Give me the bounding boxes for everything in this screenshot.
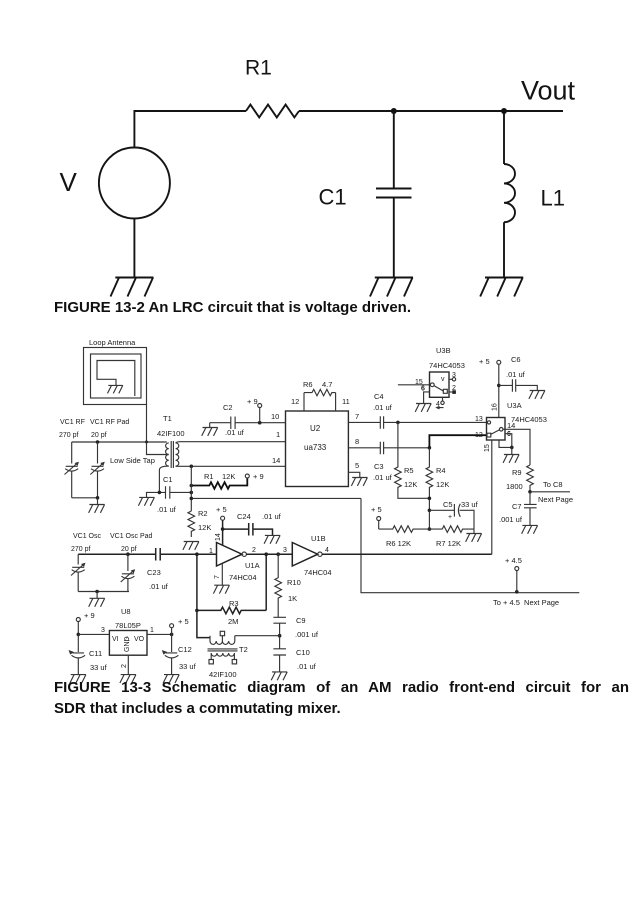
gate ground stub U1A <box>221 564 223 586</box>
svg-text:20 pf: 20 pf <box>91 432 107 439</box>
svg-text:v: v <box>441 376 445 383</box>
svg-text:270 pf: 270 pf <box>59 432 79 439</box>
svg-text:7: 7 <box>214 575 221 579</box>
wire osc bottom <box>78 591 129 593</box>
resistor R7 12K row <box>429 526 474 533</box>
svg-text:R5: R5 <box>404 466 414 475</box>
svg-text:C3: C3 <box>374 462 384 471</box>
svg-text:△: △ <box>125 636 130 642</box>
wire L1 to ground <box>503 222 505 277</box>
node R4 bottom <box>428 497 432 501</box>
wire +5 C24 <box>222 520 224 529</box>
wire T1 secondary top to U2 pin 1 <box>176 442 286 443</box>
svg-text:VC1 RF Pad: VC1 RF Pad <box>90 419 129 426</box>
IC U8 box <box>109 631 147 656</box>
svg-text:+ 9: + 9 <box>84 611 95 620</box>
pin 2 stub U8 <box>127 655 129 674</box>
svg-text:+ 5: + 5 <box>371 505 382 514</box>
transformer T1 core <box>171 441 173 468</box>
ground RF tank <box>89 498 105 513</box>
svg-text:C24: C24 <box>237 512 251 521</box>
transformer T1 secondary winding <box>176 443 179 466</box>
svg-text:10: 10 <box>271 412 279 421</box>
svg-text:C4: C4 <box>374 392 384 401</box>
node C24 <box>221 527 225 531</box>
capacitor C1 <box>166 486 170 499</box>
resistor R6 12K row <box>379 526 430 533</box>
capacitor C6 row <box>499 379 538 392</box>
svg-text:C2: C2 <box>223 403 233 412</box>
wire pin 3 U8 <box>78 633 109 635</box>
wire mixer feed down <box>361 498 579 592</box>
node y498 <box>190 497 194 501</box>
svg-text:C1: C1 <box>163 475 173 484</box>
svg-text:R3: R3 <box>229 599 239 608</box>
ground U3B <box>415 404 431 412</box>
pin 2 stub U3B <box>449 391 452 393</box>
inductor L1 <box>504 164 515 222</box>
IC U3B box <box>430 372 450 397</box>
svg-text:R1: R1 <box>204 472 214 481</box>
node C4 R5 <box>396 421 400 425</box>
oscillator wire with C23 <box>78 548 216 561</box>
svg-text:VO: VO <box>134 636 145 643</box>
svg-text:.01 uf: .01 uf <box>149 582 169 591</box>
svg-text:12: 12 <box>475 432 483 439</box>
svg-text:12K: 12K <box>404 480 417 489</box>
svg-text:12: 12 <box>291 397 299 406</box>
resistor R2 <box>188 511 195 537</box>
wire T2 to C9 C10 node <box>235 635 280 637</box>
node R9 C7 <box>528 490 532 494</box>
svg-text:U3B: U3B <box>436 346 451 355</box>
svg-text:C23: C23 <box>147 568 161 577</box>
wire pin 15 U3B <box>398 384 430 386</box>
capacitor C11 electrolytic <box>72 653 86 674</box>
ground R7 <box>466 529 482 542</box>
node C3 R4 <box>428 446 432 450</box>
pin 3 stub U3B <box>449 378 452 380</box>
variable capacitor VC1 RF Pad <box>90 442 104 498</box>
svg-text:+ 4.5: + 4.5 <box>505 556 522 565</box>
svg-text:.01 uf: .01 uf <box>157 505 177 514</box>
caption figure 13-2 <box>54 297 411 318</box>
svg-text:R6 12K: R6 12K <box>386 539 411 548</box>
svg-text:33 uf: 33 uf <box>90 663 108 672</box>
caption figure 13-3 <box>54 677 629 719</box>
svg-text:6: 6 <box>507 431 511 438</box>
svg-text:T2: T2 <box>239 645 248 654</box>
node osc ground <box>95 590 99 594</box>
svg-text:To C8: To C8 <box>543 480 563 489</box>
terminal +9 C2 <box>259 408 261 423</box>
wire pin8 + capacitor C3 <box>348 442 429 455</box>
svg-text:V: V <box>60 167 78 197</box>
svg-text:+ 9: + 9 <box>253 472 264 481</box>
svg-text:3: 3 <box>101 627 105 634</box>
ground R2 <box>183 542 199 550</box>
node VC1 Osc Pad <box>126 552 130 556</box>
svg-text:R9: R9 <box>512 468 522 477</box>
node VC1 RF Pad <box>96 440 100 444</box>
wire pin 14 to R9 <box>503 429 530 465</box>
loop antenna innermost turn <box>97 361 135 397</box>
inverter U1A <box>217 543 243 567</box>
ground U1A <box>213 585 229 593</box>
svg-text:.001 uf: .001 uf <box>499 515 523 524</box>
svg-text:+ 9: + 9 <box>247 397 258 406</box>
node R3 feedback <box>264 552 268 556</box>
wire vertical R2 node <box>190 466 192 511</box>
svg-text:1: 1 <box>209 548 213 555</box>
ground pin5 <box>351 478 367 486</box>
svg-text:15: 15 <box>484 444 491 452</box>
node +9 C2 <box>258 421 262 425</box>
svg-text:14: 14 <box>272 456 280 465</box>
ground inside antenna <box>108 385 123 393</box>
svg-text:.01 uf: .01 uf <box>262 512 282 521</box>
node C9 C10 T2 <box>278 634 282 638</box>
capacitor C2 row <box>210 417 286 430</box>
svg-text:U1B: U1B <box>311 534 326 543</box>
svg-text:2: 2 <box>452 385 456 392</box>
switch lever U3A <box>491 430 500 435</box>
wire pin 1 U8 <box>147 633 172 635</box>
svg-text:R2: R2 <box>198 509 208 518</box>
node R3 left <box>195 609 199 613</box>
node C1 right <box>190 491 194 495</box>
node R1 left <box>190 484 194 488</box>
svg-text:.01 uf: .01 uf <box>225 428 245 437</box>
svg-text:12K: 12K <box>222 472 235 481</box>
variable capacitor VC1 Osc Pad <box>121 554 135 591</box>
svg-text:2: 2 <box>121 664 128 668</box>
wire +9 down <box>77 622 79 653</box>
svg-text:R7 12K: R7 12K <box>436 539 461 548</box>
wire C1 node to mixer column <box>191 497 361 499</box>
svg-text:U1A: U1A <box>245 561 260 570</box>
svg-text:42IF100: 42IF100 <box>157 429 185 438</box>
wire C3 node to U3A pin 12 <box>429 435 486 448</box>
resistor R6 4.7 with stubs <box>304 389 336 411</box>
svg-text:T1: T1 <box>163 414 172 423</box>
svg-text:16: 16 <box>492 403 499 411</box>
svg-text:R6: R6 <box>303 380 313 389</box>
wire R1 to Vout end <box>299 110 563 112</box>
svg-text:1K: 1K <box>288 594 297 603</box>
node T1 bottom <box>190 465 194 469</box>
svg-text:.01 uf: .01 uf <box>506 370 526 379</box>
wire pin7 + capacitor C4 <box>348 416 486 429</box>
svg-text:74HC04: 74HC04 <box>229 573 257 582</box>
svg-text:VC1 Osc: VC1 Osc <box>73 533 102 540</box>
wire T1 primary bottom to C1 <box>159 466 168 492</box>
svg-text:12K: 12K <box>436 480 449 489</box>
node C11 <box>77 633 81 637</box>
svg-text:VC1 RF: VC1 RF <box>60 419 85 426</box>
svg-text:33 uf: 33 uf <box>461 500 479 509</box>
wire RF node <box>72 441 167 443</box>
svg-text:ua733: ua733 <box>304 443 327 452</box>
ground osc <box>89 592 105 607</box>
svg-text:C10: C10 <box>296 648 310 657</box>
wire T1 secondary bottom to U2 pin 14 <box>176 465 286 467</box>
svg-text:C1: C1 <box>319 185 347 210</box>
wire U1B out to mixer <box>322 553 492 555</box>
T2 secondary terminals <box>209 660 213 664</box>
svg-text:R10: R10 <box>287 578 301 587</box>
wire node to C1 <box>393 111 395 188</box>
svg-text:VC1 Osc Pad: VC1 Osc Pad <box>110 533 153 540</box>
svg-text:+ 5: + 5 <box>178 617 189 626</box>
svg-text:2M: 2M <box>228 617 238 626</box>
resistor R10 <box>275 554 282 617</box>
svg-text:4.7: 4.7 <box>322 380 332 389</box>
feedback vertical left <box>196 554 198 610</box>
svg-text:C11: C11 <box>89 649 102 658</box>
transformer T1 primary winding <box>166 443 169 466</box>
wire pin5 to ground <box>348 472 359 477</box>
svg-text:R1: R1 <box>245 57 272 80</box>
svg-text:.01 uf: .01 uf <box>373 403 393 412</box>
svg-text:270 pf: 270 pf <box>71 546 91 553</box>
ground under L1 <box>480 278 523 297</box>
wire antenna to tap <box>147 442 169 455</box>
wire pin6 to ground U3B <box>424 392 430 403</box>
wire pin6 U3A to ground <box>505 434 512 448</box>
pin 4 stub below U3B <box>442 397 444 401</box>
switch pole U3B <box>430 383 434 387</box>
svg-text:.01 uf: .01 uf <box>373 473 393 482</box>
control line U3A to U1B output <box>491 440 493 554</box>
svg-text:11: 11 <box>342 397 350 406</box>
ground C6 <box>529 391 545 399</box>
node RF ground <box>96 496 100 500</box>
variable capacitor VC1 Osc <box>71 554 85 591</box>
pin 13 pole <box>487 421 490 424</box>
capacitor C7 <box>524 492 537 525</box>
terminal +9 U8 <box>76 618 80 622</box>
svg-text:13: 13 <box>475 416 483 423</box>
ground U3A <box>503 447 519 463</box>
svg-text:+: + <box>448 514 452 521</box>
node antenna <box>145 441 148 444</box>
svg-text:4: 4 <box>325 547 329 554</box>
svg-text:C9: C9 <box>296 616 306 625</box>
svg-text:74HC04: 74HC04 <box>304 568 332 577</box>
wire +5 down to U3A <box>498 364 500 417</box>
bottom pin U3A <box>499 440 512 447</box>
svg-text:VI: VI <box>112 636 119 643</box>
svg-text:+ 5: + 5 <box>479 357 490 366</box>
wire RF bottom <box>72 497 98 499</box>
ground C11 <box>70 675 86 683</box>
loop antenna inner turn <box>91 354 142 398</box>
capacitor C9 <box>273 617 286 635</box>
wire osc node down to T2 <box>197 610 210 637</box>
capacitor C24 row <box>223 523 273 536</box>
resistor R1 12K row <box>191 478 247 489</box>
node R10 top <box>276 552 280 556</box>
terminal +9 R1 <box>245 474 249 478</box>
svg-text:2: 2 <box>252 547 256 554</box>
IC U2 box <box>286 411 349 487</box>
feedback vertical right <box>265 554 267 610</box>
ground C10 <box>271 672 287 680</box>
resistor R9 <box>527 465 534 492</box>
svg-text:.001 uf: .001 uf <box>295 630 319 639</box>
ground C12 <box>163 675 179 683</box>
resistor R5 <box>395 422 430 498</box>
wire C1 to ground <box>393 198 395 278</box>
node junction L1 <box>501 108 507 114</box>
node C1 left <box>158 491 162 495</box>
node U1A input <box>195 552 199 556</box>
resistor R3 row <box>197 607 266 614</box>
node C12 <box>170 633 174 637</box>
svg-text:14: 14 <box>507 421 515 430</box>
svg-text:C12: C12 <box>178 645 192 654</box>
ground under V <box>111 278 154 297</box>
svg-text:U8: U8 <box>121 607 131 616</box>
capacitor C10 <box>273 636 286 672</box>
terminal +5 U8 <box>170 624 174 628</box>
inverter U1B <box>292 543 317 567</box>
svg-text:1800: 1800 <box>506 482 523 491</box>
wire node to L1 <box>503 111 505 164</box>
terminal +5 R6 <box>377 517 381 521</box>
ground U8 <box>120 675 136 683</box>
svg-text:20 pf: 20 pf <box>121 546 137 553</box>
resistor R1 <box>246 105 299 118</box>
svg-text:74HC4053: 74HC4053 <box>429 361 465 370</box>
svg-text:5: 5 <box>355 461 359 470</box>
+5 terminal C24 <box>221 516 225 520</box>
svg-text:12K: 12K <box>198 523 211 532</box>
node R6 R7 <box>428 527 432 531</box>
svg-text:To + 4.5 Next Page: To + 4.5 Next Page <box>493 598 559 607</box>
svg-text:1: 1 <box>150 627 154 634</box>
ground C24 <box>264 535 280 543</box>
wire V bottom to ground <box>133 219 135 278</box>
svg-text:L1: L1 <box>541 186 565 211</box>
transformer T2 core <box>208 649 238 651</box>
svg-text:8: 8 <box>355 437 359 446</box>
T2 center tap <box>221 636 223 642</box>
svg-text:C7: C7 <box>512 502 522 511</box>
wire +5 to R6 <box>378 521 380 530</box>
node C6 <box>497 384 501 388</box>
node C5 branch <box>428 509 432 513</box>
svg-text:C6: C6 <box>511 355 521 364</box>
terminal +5 C6 <box>497 360 501 364</box>
ground C7 <box>522 525 538 533</box>
resistor R4 <box>426 448 433 529</box>
capacitor C12 electrolytic <box>165 653 179 674</box>
wire antenna down <box>146 405 148 443</box>
capacitor C5 row <box>429 504 474 529</box>
voltage source V circle <box>99 148 170 219</box>
svg-text:74HC4053: 74HC4053 <box>511 415 547 424</box>
terminal +4.5 <box>516 571 518 593</box>
ground under C1 <box>370 278 413 297</box>
power stub U1A <box>222 529 224 545</box>
svg-text:78L05P: 78L05P <box>115 621 141 630</box>
ground C2 <box>202 423 218 436</box>
node +4.5 <box>515 590 519 594</box>
svg-text:Loop Antenna: Loop Antenna <box>89 338 136 347</box>
svg-text:U2: U2 <box>310 424 321 433</box>
svg-text:C5: C5 <box>443 500 453 509</box>
svg-text:7: 7 <box>355 412 359 421</box>
svg-text:33 uf: 33 uf <box>179 662 197 671</box>
svg-text:3: 3 <box>452 372 456 379</box>
svg-text:U3A: U3A <box>507 401 522 410</box>
variable capacitor VC1 RF <box>65 442 79 498</box>
wire C1 to R2 node <box>170 491 192 493</box>
svg-text:.01 uf: .01 uf <box>297 662 317 671</box>
contact U3B <box>443 389 447 393</box>
transformer T2 secondary winding <box>211 653 234 660</box>
pin 12 contact <box>487 433 491 437</box>
wire to C8 next page <box>530 491 570 493</box>
capacitor C1 <box>376 189 412 198</box>
svg-text:Vout: Vout <box>521 76 576 106</box>
svg-text:Next Page: Next Page <box>538 495 573 504</box>
wire U1A out to U1B <box>246 553 292 555</box>
transformer T2 primary winding <box>210 636 235 645</box>
svg-text:R4: R4 <box>436 466 446 475</box>
node pin6 ground <box>510 446 514 450</box>
ground C1 <box>138 497 154 505</box>
node junction C1 <box>391 108 397 114</box>
svg-text:1: 1 <box>276 430 280 439</box>
svg-text:+ 5: + 5 <box>216 505 227 514</box>
svg-text:Low Side Tap: Low Side Tap <box>110 456 155 465</box>
svg-text:14: 14 <box>215 533 222 541</box>
loop antenna outer turn <box>84 348 147 405</box>
wire V top to corner <box>134 111 246 148</box>
IC U3A box <box>487 418 506 441</box>
svg-text:3: 3 <box>283 547 287 554</box>
wire C1 left ground <box>147 492 166 497</box>
